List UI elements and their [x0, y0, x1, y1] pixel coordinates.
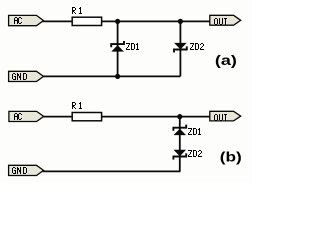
junction node zener chain top (b)	[177, 114, 182, 119]
wire AC to R1 (a)	[43, 20, 73, 22]
svg-text:(a): (a)	[215, 52, 237, 68]
svg-text:(b): (b)	[220, 148, 242, 164]
connector AC (circuit a)	[9, 15, 44, 25]
bottom rail wire (a)	[43, 75, 181, 77]
resistor R1 (b)	[72, 102, 102, 121]
junction node ZD1 top (a)	[115, 19, 120, 24]
zener diode ZD2 (b)	[173, 150, 202, 160]
zener diode ZD2 (a)	[174, 43, 204, 53]
connector AC (circuit b)	[9, 111, 44, 121]
wire R1 to OUT (a)	[102, 20, 211, 22]
bottom rail wire (b)	[43, 170, 181, 172]
connector OUT (b)	[210, 111, 241, 121]
wire ZD1 branch (a)	[117, 21, 119, 76]
wire AC to R1 (b)	[43, 116, 72, 118]
connector GND (a)	[9, 71, 44, 81]
connector GND (b)	[9, 165, 44, 175]
junction node ZD1 bottom (a)	[115, 74, 120, 79]
resistor R1 (a)	[72, 7, 102, 26]
connector OUT (a)	[210, 15, 241, 25]
junction node ZD2 top (a)	[178, 19, 183, 24]
wire R1 to OUT (b)	[102, 116, 211, 118]
zener diode ZD1 (b)	[173, 125, 201, 136]
wire zener chain (b)	[179, 117, 181, 172]
zener diode ZD1 (a)	[111, 41, 139, 52]
wire ZD2 branch (a)	[179, 21, 181, 76]
